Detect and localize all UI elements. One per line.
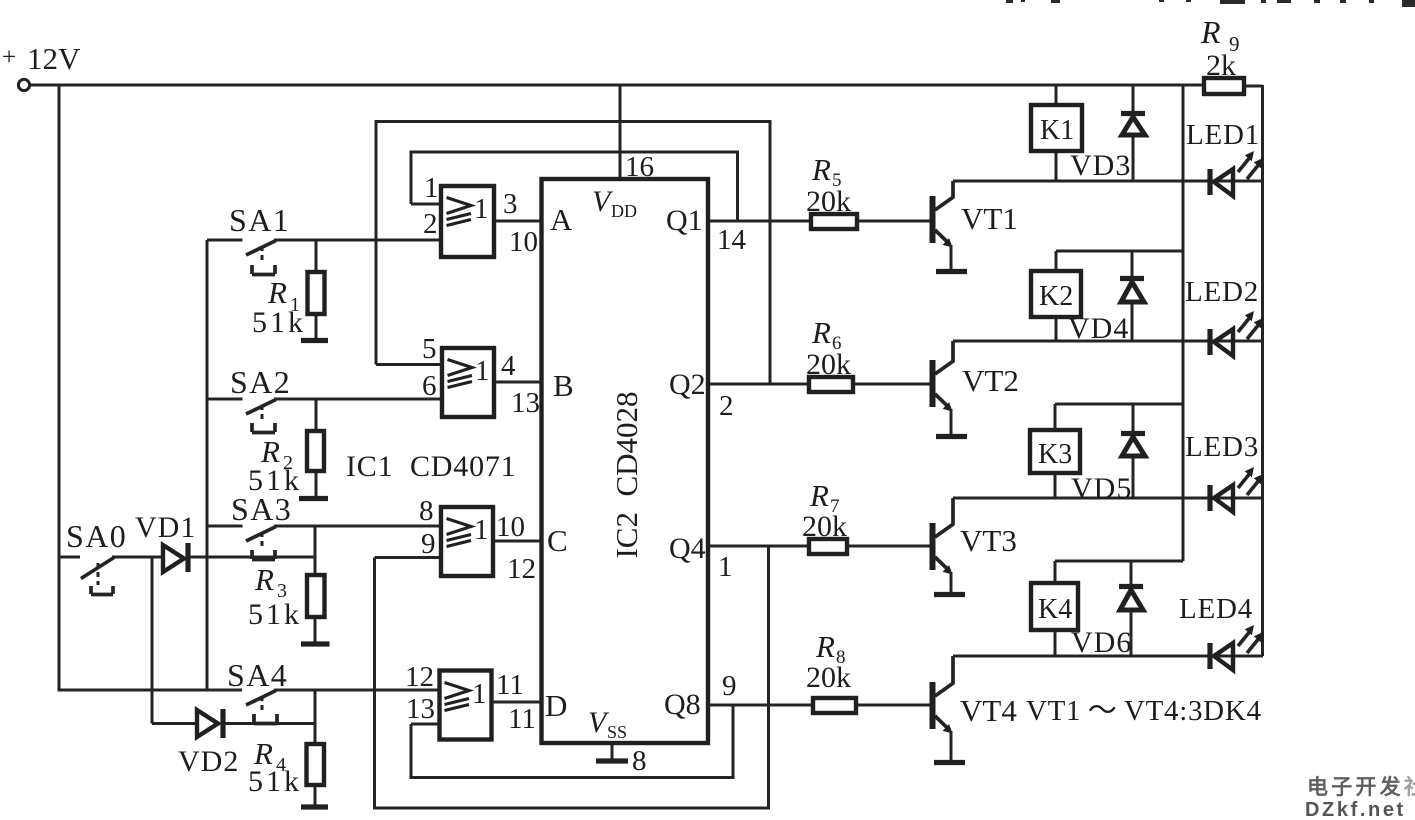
svg-text:R: R <box>267 275 287 310</box>
resistor R4 <box>248 690 324 805</box>
svg-text:K1: K1 <box>1040 115 1074 146</box>
wire Q4 row <box>710 545 930 548</box>
wire VDD drop to pin16 <box>619 85 622 179</box>
svg-text:Q1: Q1 <box>666 204 703 237</box>
wire Q2 row <box>710 383 930 386</box>
switch SA3 <box>207 491 441 560</box>
pin 16 label <box>625 151 654 183</box>
svg-text:2: 2 <box>719 390 734 422</box>
svg-text:8: 8 <box>632 745 647 777</box>
wire Q1 row <box>710 220 930 223</box>
resistor R9 <box>1200 14 1244 94</box>
diode VD6 <box>1071 561 1143 659</box>
svg-text:1: 1 <box>474 193 489 225</box>
svg-text:1: 1 <box>474 514 489 546</box>
diode VD4 <box>1068 251 1144 345</box>
svg-text:VT1: VT1 <box>961 201 1018 236</box>
switch SA1 <box>207 202 441 275</box>
svg-text:9: 9 <box>722 670 737 702</box>
svg-text:13: 13 <box>511 387 540 419</box>
svg-text:6: 6 <box>422 370 437 402</box>
svg-text:1: 1 <box>718 551 733 583</box>
svg-text:Q2: Q2 <box>669 368 706 401</box>
diode VD3 <box>1070 85 1145 182</box>
svg-text:5: 5 <box>422 333 437 365</box>
svg-text:R: R <box>254 562 274 597</box>
wire Q8 row <box>710 704 930 707</box>
or-gate U1B <box>442 348 494 417</box>
node +12V label <box>2 41 81 76</box>
wire +12V top rail <box>30 84 1204 87</box>
svg-text:VD2: VD2 <box>178 745 239 778</box>
svg-text:51k: 51k <box>248 464 302 497</box>
svg-text:1: 1 <box>424 172 439 204</box>
relay K2 <box>1031 251 1183 341</box>
wire gate D pin13 stub <box>411 723 440 726</box>
ground R4 <box>301 804 328 809</box>
svg-text:1: 1 <box>475 355 490 387</box>
wire gate C pin9 stub <box>375 556 442 559</box>
svg-text:51k: 51k <box>248 598 302 631</box>
svg-text:R: R <box>815 629 835 664</box>
pin 9 label <box>421 528 436 560</box>
ground VSS pin8 <box>596 743 628 761</box>
watermark text <box>1305 775 1415 820</box>
ground R2 <box>299 496 328 501</box>
wire feedback Q8 to pin13 <box>411 705 733 778</box>
svg-text:12: 12 <box>405 661 434 693</box>
diode VD1 <box>135 511 315 572</box>
svg-text:12V: 12V <box>27 41 81 76</box>
ground R3 <box>301 641 330 646</box>
svg-text:VD5: VD5 <box>1071 472 1132 505</box>
wire feedback Q1 to pin1 <box>411 152 738 221</box>
ground VT4 <box>934 760 965 765</box>
pin B label <box>553 368 574 403</box>
svg-text:VD1: VD1 <box>135 511 196 544</box>
pin C label <box>547 523 568 558</box>
svg-text:C: C <box>547 523 568 558</box>
wire row2 collector bus <box>953 340 1263 343</box>
pin 14 label <box>717 224 747 256</box>
svg-text:R: R <box>809 478 829 513</box>
svg-text:DZkf.net: DZkf.net <box>1305 799 1406 820</box>
svg-text:D: D <box>545 688 567 723</box>
resistor R2 <box>248 399 324 497</box>
pin Q2 label <box>669 368 706 401</box>
led LED2 <box>1185 276 1263 356</box>
svg-text:10: 10 <box>509 226 538 258</box>
ground VT1 <box>936 269 967 274</box>
wire row3 collector bus <box>953 497 1263 500</box>
pin 11 label gate output <box>496 669 524 701</box>
svg-text:14: 14 <box>717 224 747 256</box>
svg-text:11: 11 <box>496 669 524 701</box>
pin A label <box>550 202 573 237</box>
diode VD2 <box>152 709 315 778</box>
pin Q4 label <box>669 532 706 565</box>
transistor VT4 <box>930 656 1018 760</box>
svg-text:SA4: SA4 <box>227 657 288 693</box>
svg-text:4: 4 <box>501 350 516 382</box>
switch SA0 <box>59 518 163 595</box>
svg-text:VT2: VT2 <box>962 363 1019 398</box>
svg-text:SA1: SA1 <box>229 202 290 238</box>
svg-text:R: R <box>811 152 831 187</box>
led LED4 <box>1179 593 1263 670</box>
svg-text:11: 11 <box>508 703 536 735</box>
or-gate U1D <box>440 671 492 740</box>
svg-text:13: 13 <box>406 693 435 725</box>
pin 13 label <box>511 387 540 419</box>
svg-text:VD6: VD6 <box>1071 626 1132 659</box>
led LED1 <box>1186 119 1263 196</box>
svg-text:LED3: LED3 <box>1185 431 1259 463</box>
pin 1 label ic output <box>718 551 733 583</box>
resistor R6 <box>806 315 853 392</box>
svg-text:LED1: LED1 <box>1186 119 1260 151</box>
wire gate D output to pin11 <box>492 701 544 704</box>
svg-text:IC1 CD4071: IC1 CD4071 <box>346 450 516 483</box>
relay K1 <box>1031 85 1082 181</box>
switch SA4 <box>227 657 440 724</box>
ground R1 <box>301 338 328 343</box>
svg-text:VT3: VT3 <box>960 523 1017 558</box>
relay K3 <box>1030 404 1183 498</box>
switch SA2 <box>207 364 442 433</box>
svg-text:8: 8 <box>419 495 434 527</box>
wire feedback Q2 to pin5 <box>376 122 770 385</box>
pin 13 label <box>406 693 435 725</box>
wire VD2 branch vertical <box>151 557 154 724</box>
svg-text:2: 2 <box>423 208 438 240</box>
ground VT2 <box>936 434 967 439</box>
pin 3 label <box>503 188 518 220</box>
svg-text:电子开发社区: 电子开发社区 <box>1307 775 1415 799</box>
svg-text:SA2: SA2 <box>230 364 291 400</box>
resistor R8 <box>806 629 856 713</box>
pin 9 label ic output <box>722 670 737 702</box>
svg-text:K3: K3 <box>1038 439 1072 470</box>
net VDD <box>592 185 637 221</box>
note VT types <box>1026 695 1262 727</box>
wire switch common vertical <box>206 240 209 690</box>
svg-text:51k: 51k <box>252 306 306 339</box>
svg-text:VT1 ～ VT4:3DK4: VT1 ～ VT4:3DK4 <box>1026 695 1262 727</box>
pin 2 label <box>719 390 734 422</box>
svg-text:LED2: LED2 <box>1185 276 1259 308</box>
transistor VT1 <box>930 181 1018 269</box>
transistor VT2 <box>930 341 1019 434</box>
wire gate C output to pin12 <box>493 540 543 543</box>
svg-text:1: 1 <box>472 678 487 710</box>
or-gate U1A <box>441 186 494 257</box>
IC1 label <box>346 450 516 483</box>
wire feedback Q4 to pin9 <box>375 546 769 808</box>
or-gate U1C <box>441 507 493 576</box>
svg-text:Q8: Q8 <box>664 688 701 721</box>
pin 10 label gate output <box>496 511 525 543</box>
decorative top-edge scan remnants <box>1006 0 1415 7</box>
pin Q1 label <box>666 204 703 237</box>
pin 10 label <box>509 226 538 258</box>
pin 6 label <box>422 370 437 402</box>
wire gate B pin5 stub <box>376 363 442 366</box>
net VSS <box>588 706 627 742</box>
led LED3 <box>1185 431 1263 512</box>
svg-text:20k: 20k <box>806 661 851 694</box>
wire LED cathode bus from R9 <box>1261 85 1264 656</box>
wire +12V rail right of R9 <box>1244 85 1263 88</box>
pin 4 label <box>501 350 516 382</box>
svg-text:K4: K4 <box>1038 594 1072 625</box>
resistor R3 <box>248 526 325 642</box>
svg-text:VT4: VT4 <box>960 693 1017 728</box>
wire row4 collector bus <box>953 655 1263 658</box>
svg-text:10: 10 <box>496 511 525 543</box>
svg-text:LED4: LED4 <box>1179 593 1253 625</box>
svg-text:12: 12 <box>507 553 536 585</box>
wire left +12V drop to SA4 row <box>59 85 242 690</box>
pin Q8 label <box>664 688 701 721</box>
svg-text:A: A <box>550 202 573 237</box>
wire row1 collector bus <box>953 180 1263 183</box>
pin 11 label ic input <box>508 703 536 735</box>
wire +12V sub-bus for relays <box>1182 85 1185 561</box>
terminal +12V <box>18 79 29 90</box>
svg-text:IC2 CD4028: IC2 CD4028 <box>609 391 644 558</box>
svg-text:VD3: VD3 <box>1070 149 1131 182</box>
resistor R1 <box>252 240 325 339</box>
svg-text:DD: DD <box>611 201 637 221</box>
transistor VT3 <box>930 498 1017 592</box>
svg-text:R: R <box>1200 14 1221 50</box>
wire gate A pin1 stub <box>411 203 441 206</box>
svg-text:R: R <box>811 315 831 350</box>
pin 5 label <box>422 333 437 365</box>
pin D label <box>545 688 567 723</box>
svg-text:Q4: Q4 <box>669 532 706 565</box>
pin 12 label <box>405 661 434 693</box>
IC U2 CD4028 box <box>542 179 709 743</box>
pin 8 label <box>419 495 434 527</box>
pin 1 label <box>424 172 439 204</box>
ground VT3 <box>934 592 965 597</box>
svg-text:16: 16 <box>625 151 654 183</box>
wire gate B output to pin13 <box>494 381 543 384</box>
pin 8 label <box>632 745 647 777</box>
svg-text:SS: SS <box>607 722 627 742</box>
wire gate A output to pin10 <box>494 220 543 223</box>
pin 12 label <box>507 553 536 585</box>
svg-text:VD4: VD4 <box>1068 312 1129 345</box>
svg-text:K2: K2 <box>1039 281 1073 312</box>
relay K4 <box>1031 561 1183 656</box>
svg-text:B: B <box>553 368 574 403</box>
svg-text:3: 3 <box>503 188 518 220</box>
diode VD5 <box>1071 404 1145 505</box>
resistor R7 <box>802 478 847 554</box>
resistor R5 <box>806 152 857 229</box>
pin 2 label <box>423 208 438 240</box>
svg-text:9: 9 <box>421 528 436 560</box>
svg-text:+: + <box>2 44 16 71</box>
svg-text:51k: 51k <box>248 765 302 798</box>
svg-text:SA0: SA0 <box>66 518 127 554</box>
